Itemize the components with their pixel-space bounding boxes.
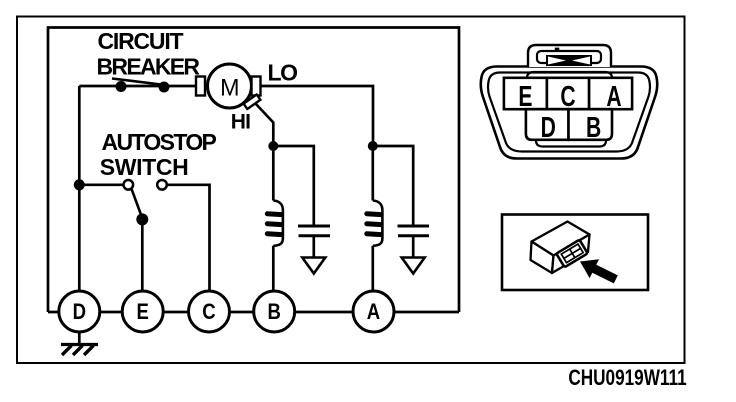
terminal A bbox=[353, 291, 394, 332]
relay icon 3d body right face bbox=[552, 235, 590, 274]
motor right terminal (LO) bbox=[252, 77, 261, 96]
capacitor C2 plates bbox=[398, 225, 430, 228]
svg-text:B: B bbox=[586, 112, 601, 144]
svg-text:C: C bbox=[202, 300, 216, 324]
node junction B column bbox=[268, 141, 278, 151]
terminal B bbox=[254, 291, 295, 332]
ground symbol under D bbox=[61, 332, 98, 355]
relay icon box bbox=[502, 215, 648, 291]
wire: branch to capacitor C2 bbox=[373, 146, 413, 225]
circuit breaker contact dot left bbox=[116, 81, 127, 92]
connector housing outer outline bbox=[481, 67, 657, 159]
wire: right contact to terminal C bbox=[167, 185, 210, 292]
svg-text:B: B bbox=[268, 300, 281, 324]
inductor L1 (B column) bbox=[267, 146, 283, 292]
svg-text:M: M bbox=[220, 74, 239, 102]
svg-text:SWITCH: SWITCH bbox=[100, 154, 189, 180]
autostop switch contact right (open circle) bbox=[157, 180, 167, 190]
node junction A column bbox=[368, 141, 378, 151]
connector lock tab band with bowtie bbox=[546, 55, 592, 66]
motor HI terminal (tilted) bbox=[244, 95, 261, 110]
terminal C bbox=[189, 291, 230, 332]
connector cavity E bbox=[504, 78, 547, 109]
svg-text:AUTOSTOP: AUTOSTOP bbox=[102, 129, 217, 155]
svg-text:CIRCUIT: CIRCUIT bbox=[98, 28, 184, 54]
svg-text:LO: LO bbox=[268, 60, 298, 86]
connector cavity D bbox=[526, 109, 569, 140]
connector housing inner outline bbox=[488, 73, 650, 152]
wire: HI diagonal down to B column bbox=[255, 103, 273, 146]
connector lock tab outer bbox=[528, 45, 611, 67]
connector lock tab inner bbox=[537, 51, 601, 63]
outer border bbox=[17, 17, 685, 364]
autostop switch contact left (open circle) bbox=[124, 180, 134, 190]
connector collar bottom bump bbox=[536, 141, 606, 147]
svg-text:E: E bbox=[518, 81, 532, 113]
wire: pivot to terminal E bbox=[141, 219, 144, 292]
terminal E bbox=[122, 291, 163, 332]
wire: C1 to ground arrow bbox=[312, 237, 315, 258]
svg-text:D: D bbox=[541, 112, 556, 144]
circuit breaker contact dot right bbox=[159, 82, 170, 93]
connector cavity A bbox=[589, 78, 632, 109]
ground arrow under C1 bbox=[302, 258, 325, 274]
svg-text:CHU0919W111: CHU0919W111 bbox=[568, 366, 686, 391]
svg-text:BREAKER: BREAKER bbox=[97, 53, 201, 79]
connector lock tab notch bbox=[555, 48, 560, 51]
wire: branch to capacitor C1 bbox=[273, 146, 314, 225]
wire: schematic frame bus (left, top, right) bbox=[48, 28, 459, 313]
relay icon socket bbox=[556, 240, 587, 268]
node junction autostop bbox=[74, 179, 85, 190]
circuit breaker blade bbox=[112, 79, 165, 86]
connector cavity B bbox=[569, 109, 613, 140]
connector collar top bump bbox=[527, 72, 612, 78]
wire: bottom bus row through terminals bbox=[48, 311, 459, 314]
autostop switch pivot dot bbox=[136, 213, 148, 225]
wire: C2 to ground arrow bbox=[412, 237, 415, 258]
svg-text:C: C bbox=[560, 81, 575, 113]
terminal D bbox=[59, 291, 100, 332]
svg-text:D: D bbox=[73, 300, 86, 324]
autostop switch blade bbox=[131, 188, 141, 215]
motor M circle bbox=[208, 64, 252, 108]
wire: left vertical from breaker to D bbox=[78, 86, 81, 292]
relay icon 3d body top face bbox=[532, 222, 590, 256]
wire: junction to switch contact bbox=[79, 183, 123, 186]
relay icon arrow bbox=[580, 259, 618, 283]
svg-text:A: A bbox=[367, 300, 381, 324]
inductor L2 (A column) bbox=[367, 146, 383, 292]
wire: circuit breaker feed to motor bbox=[79, 85, 197, 88]
svg-text:E: E bbox=[137, 300, 149, 324]
relay icon 3d body left face bbox=[531, 242, 554, 274]
ground arrow under C2 bbox=[402, 258, 425, 274]
motor left terminal bbox=[196, 77, 205, 96]
wire: LO to right column bbox=[261, 86, 374, 146]
connector cavity C bbox=[547, 78, 589, 109]
svg-text:HI: HI bbox=[231, 111, 250, 134]
capacitor C1 plates bbox=[298, 225, 330, 228]
svg-text:A: A bbox=[606, 81, 621, 113]
